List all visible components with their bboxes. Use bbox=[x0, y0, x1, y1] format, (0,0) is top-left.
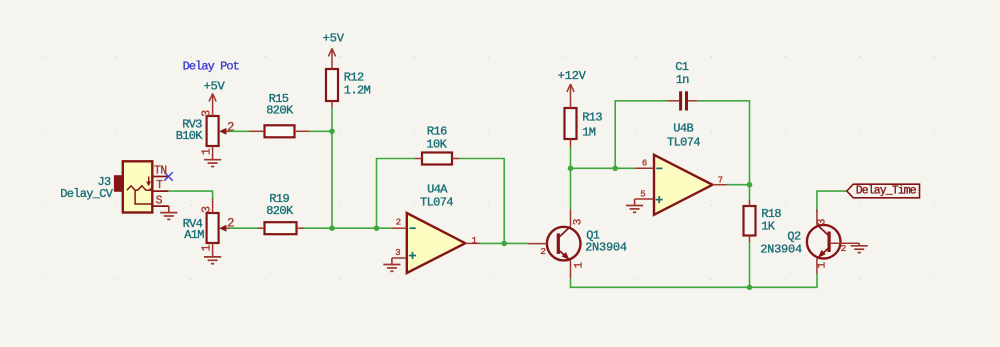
svg-text:A1M: A1M bbox=[184, 228, 204, 242]
svg-text:U4A: U4A bbox=[427, 182, 448, 196]
svg-text:2: 2 bbox=[540, 246, 546, 257]
svg-text:1: 1 bbox=[201, 244, 214, 251]
svg-text:+12V: +12V bbox=[558, 69, 587, 83]
svg-text:820K: 820K bbox=[266, 104, 294, 118]
svg-text:2: 2 bbox=[396, 218, 401, 228]
svg-text:T: T bbox=[156, 179, 163, 192]
svg-text:7: 7 bbox=[718, 175, 723, 185]
svg-text:10K: 10K bbox=[426, 138, 447, 152]
svg-text:U4B: U4B bbox=[673, 122, 693, 136]
svg-text:1: 1 bbox=[574, 262, 586, 269]
svg-text:1: 1 bbox=[472, 236, 477, 246]
svg-text:6: 6 bbox=[642, 159, 647, 169]
svg-text:820K: 820K bbox=[266, 204, 294, 218]
svg-text:3: 3 bbox=[201, 206, 214, 213]
svg-text:2: 2 bbox=[227, 217, 235, 231]
svg-text:+5V: +5V bbox=[203, 79, 225, 93]
svg-text:3: 3 bbox=[395, 248, 400, 258]
svg-text:1: 1 bbox=[816, 262, 828, 269]
svg-text:C1: C1 bbox=[675, 60, 689, 74]
svg-text:3: 3 bbox=[572, 219, 584, 226]
svg-text:2: 2 bbox=[841, 243, 847, 254]
svg-text:R13: R13 bbox=[582, 111, 602, 125]
svg-text:+5V: +5V bbox=[323, 32, 345, 46]
svg-text:TN: TN bbox=[154, 164, 167, 177]
svg-text:Delay_CV: Delay_CV bbox=[60, 187, 114, 201]
svg-text:2N3904: 2N3904 bbox=[585, 241, 627, 255]
svg-text:R16: R16 bbox=[427, 124, 447, 138]
svg-text:3: 3 bbox=[817, 219, 829, 226]
svg-text:B10K: B10K bbox=[176, 129, 204, 143]
svg-text:2: 2 bbox=[227, 120, 235, 134]
svg-text:TL074: TL074 bbox=[667, 136, 700, 150]
svg-text:5: 5 bbox=[640, 190, 645, 200]
svg-text:Delay Pot: Delay Pot bbox=[183, 60, 239, 74]
svg-text:Delay_Time: Delay_Time bbox=[856, 185, 917, 198]
svg-text:1n: 1n bbox=[676, 73, 690, 87]
svg-text:2N3904: 2N3904 bbox=[760, 242, 802, 256]
svg-text:Q2: Q2 bbox=[787, 229, 801, 243]
svg-text:TL074: TL074 bbox=[420, 196, 453, 210]
svg-text:1.2M: 1.2M bbox=[344, 83, 371, 97]
svg-text:S: S bbox=[156, 195, 163, 208]
svg-text:1K: 1K bbox=[761, 219, 776, 233]
svg-text:1M: 1M bbox=[582, 125, 596, 139]
svg-text:3: 3 bbox=[201, 110, 214, 117]
svg-text:1: 1 bbox=[201, 148, 214, 155]
